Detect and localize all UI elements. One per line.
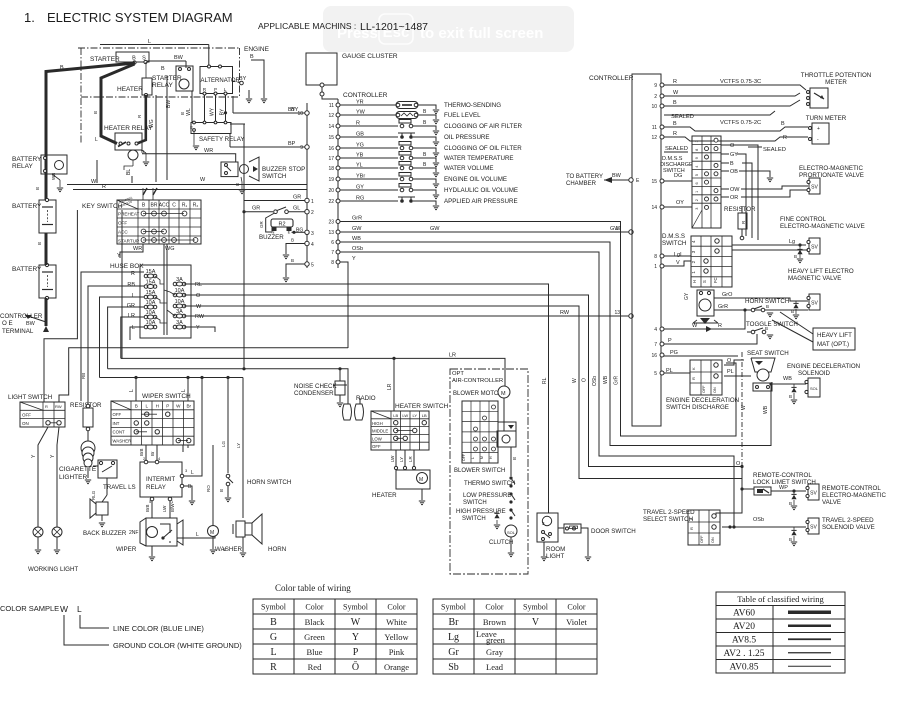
svg-text:GY: GY (730, 152, 738, 158)
svg-text:Blue: Blue (306, 647, 322, 657)
svg-text:OFF: OFF (22, 413, 31, 418)
svg-text:YBr: YBr (356, 174, 365, 180)
svg-text:RL: RL (542, 377, 548, 384)
svg-text:R: R (718, 323, 722, 329)
svg-text:CONTROLLER: CONTROLLER (589, 75, 634, 82)
svg-text:WIPER: WIPER (116, 546, 137, 553)
svg-text:P: P (214, 87, 217, 92)
svg-text:8: 8 (331, 260, 334, 266)
svg-text:B: B (794, 254, 797, 259)
svg-text:1: 1 (695, 191, 699, 193)
svg-text:WASHER: WASHER (215, 546, 242, 553)
svg-text:BATTERY: BATTERY (12, 266, 42, 273)
svg-text:VCTFS 0.75-2C: VCTFS 0.75-2C (720, 120, 761, 126)
svg-text:O: O (727, 358, 732, 364)
svg-text:VCTFS 0.75-3C: VCTFS 0.75-3C (720, 79, 761, 85)
svg-text:Q: Q (141, 149, 145, 154)
svg-text:R: R (691, 377, 696, 380)
svg-text:P: P (668, 338, 672, 344)
svg-text:ROOM: ROOM (546, 546, 565, 553)
svg-text:B: B (37, 242, 42, 245)
svg-text:18: 18 (328, 166, 334, 172)
svg-text:13: 13 (328, 230, 334, 236)
svg-text:R₁: R₁ (182, 203, 188, 209)
svg-text:M: M (501, 391, 506, 397)
svg-text:R: R (689, 527, 694, 530)
svg-text:K: K (691, 367, 696, 370)
svg-text:5: 5 (311, 263, 314, 269)
svg-text:ELECTRIC SYSTEM DIAGRAM: ELECTRIC SYSTEM DIAGRAM (47, 10, 233, 25)
svg-text:SEAT SWITCH: SEAT SWITCH (747, 350, 789, 357)
svg-text:4: 4 (654, 327, 657, 333)
svg-text:L: L (132, 293, 135, 299)
svg-text:TURN METER: TURN METER (806, 115, 847, 122)
svg-text:OFF: OFF (372, 444, 381, 449)
svg-text:YR: YR (356, 100, 364, 106)
svg-text:SEALED: SEALED (665, 146, 688, 152)
svg-text:Green: Green (304, 632, 326, 642)
svg-text:9: 9 (300, 145, 303, 151)
svg-text:R: R (270, 662, 277, 673)
svg-text:B: B (789, 501, 792, 506)
svg-text:WB: WB (783, 376, 792, 382)
svg-text:ON: ON (711, 537, 715, 543)
svg-text:3A: 3A (176, 320, 183, 326)
svg-text:SWITCH DISCHARGE: SWITCH DISCHARGE (666, 404, 729, 411)
svg-text:CONDENSER: CONDENSER (294, 390, 334, 397)
svg-text:BY: BY (291, 107, 299, 113)
svg-text:REMOTE-CONTROL: REMOTE-CONTROL (753, 472, 812, 479)
svg-text:WB: WB (763, 405, 769, 414)
svg-text:Y: Y (352, 256, 356, 262)
svg-text:LR: LR (408, 455, 413, 462)
svg-text:WB: WB (352, 236, 361, 242)
svg-text:Lg: Lg (789, 239, 795, 245)
svg-text:TRAVEL LS: TRAVEL LS (103, 484, 136, 491)
svg-text:ON: ON (22, 421, 29, 426)
svg-text:B: B (766, 304, 769, 309)
svg-text:R: R (45, 404, 48, 409)
svg-text:8: 8 (654, 254, 657, 260)
svg-text:+: + (817, 126, 820, 132)
svg-text:V: V (676, 260, 680, 266)
svg-text:BrB: BrB (139, 448, 144, 456)
svg-text:BR: BR (151, 203, 158, 209)
svg-text:B: B (789, 394, 792, 399)
svg-text:Symbol: Symbol (523, 603, 549, 612)
svg-text:WATER TEMPERATURE: WATER TEMPERATURE (444, 155, 514, 162)
svg-text:17: 17 (328, 156, 334, 162)
svg-text:WASHER: WASHER (113, 439, 132, 444)
svg-text:Color: Color (305, 603, 324, 612)
svg-text:WORKING LIGHT: WORKING LIGHT (28, 566, 78, 573)
svg-text:BrB: BrB (145, 504, 150, 512)
svg-text:GW: GW (610, 226, 620, 232)
svg-text:OW: OW (730, 187, 740, 193)
svg-text:Gray: Gray (486, 647, 504, 657)
svg-text:Red: Red (308, 662, 322, 672)
svg-text:Color: Color (567, 603, 586, 612)
svg-text:BLOWER SWITCH: BLOWER SWITCH (454, 468, 505, 474)
svg-text:HIGH PRESSURE: HIGH PRESSURE (456, 509, 506, 515)
svg-text:B: B (93, 111, 98, 114)
svg-text:OSb: OSb (592, 376, 598, 386)
svg-text:W: W (176, 404, 181, 409)
svg-text:LL-1201~1487: LL-1201~1487 (360, 21, 428, 33)
svg-text:WP: WP (779, 485, 788, 491)
svg-text:FINE CONTROL: FINE CONTROL (780, 216, 827, 223)
svg-text:R2: R2 (278, 222, 285, 228)
svg-text:G: G (270, 632, 277, 643)
svg-text:YG: YG (356, 143, 364, 149)
svg-text:2: 2 (695, 199, 699, 201)
svg-text:APPLIED AIR PRESSURE: APPLIED AIR PRESSURE (444, 198, 518, 205)
svg-text:8: 8 (695, 149, 699, 151)
svg-text:SEALED: SEALED (671, 114, 694, 120)
svg-text:BL: BL (126, 169, 132, 175)
svg-text:10A: 10A (146, 310, 156, 316)
svg-text:WG: WG (165, 246, 174, 252)
svg-text:HORN SWITCH: HORN SWITCH (247, 479, 291, 486)
svg-text:RELAY: RELAY (152, 82, 173, 89)
svg-text:TO BATTERY: TO BATTERY (566, 174, 603, 180)
svg-text:W: W (572, 378, 578, 383)
svg-text:MAT (OPT.): MAT (OPT.) (817, 341, 849, 348)
svg-text:ENGINE DECELERATION: ENGINE DECELERATION (666, 397, 739, 404)
svg-text:B: B (161, 66, 165, 72)
svg-text:W: W (196, 304, 202, 310)
svg-text:Symbol: Symbol (441, 603, 467, 612)
svg-text:R₂: R₂ (193, 203, 199, 209)
svg-text:4: 4 (311, 242, 314, 248)
svg-text:GW: GW (352, 226, 362, 232)
svg-text:OSb: OSb (352, 246, 363, 252)
svg-text:10: 10 (651, 104, 657, 110)
svg-text:Lg: Lg (448, 632, 459, 643)
svg-text:S: S (702, 280, 707, 283)
svg-text:CHAMBER: CHAMBER (566, 181, 597, 187)
svg-text:ELECTRO-MAGNETIC: ELECTRO-MAGNETIC (799, 165, 863, 172)
svg-text:16: 16 (328, 146, 334, 152)
svg-text:HEATER: HEATER (372, 492, 397, 499)
svg-text:OB: OB (730, 169, 738, 175)
svg-text:B/W: B/W (170, 503, 175, 512)
svg-text:10A: 10A (175, 288, 185, 294)
svg-text:GrR: GrR (614, 375, 620, 385)
svg-text:AIR-CONTROLLER: AIR-CONTROLLER (452, 378, 503, 384)
svg-text:SWITCH: SWITCH (462, 516, 486, 522)
svg-text:HUSE BOX: HUSE BOX (110, 263, 144, 270)
svg-text:WG: WG (149, 119, 155, 128)
svg-text:INTERMIT: INTERMIT (146, 476, 175, 483)
svg-text:DG: DG (674, 173, 682, 179)
svg-text:SWITCH: SWITCH (262, 173, 286, 180)
svg-text:B: B (222, 548, 227, 551)
svg-text:LY: LY (399, 457, 404, 462)
svg-text:L: L (196, 532, 199, 538)
svg-text:W: W (60, 604, 68, 614)
svg-text:Sb: Sb (448, 662, 459, 673)
svg-text:20: 20 (328, 188, 334, 194)
svg-text:W: W (91, 179, 97, 185)
svg-text:L: L (270, 647, 276, 658)
svg-text:SOL: SOL (810, 386, 819, 391)
svg-text:Y: Y (352, 632, 359, 643)
svg-text:GR: GR (293, 195, 301, 201)
svg-text:GB: GB (356, 132, 364, 138)
svg-text:14: 14 (651, 205, 657, 211)
svg-text:O: O (196, 293, 201, 299)
svg-text:B: B (219, 489, 224, 492)
svg-text:METER: METER (825, 79, 847, 86)
svg-text:REMOTE-CONTROL: REMOTE-CONTROL (822, 485, 881, 492)
svg-text:22: 22 (328, 199, 334, 205)
svg-text:ELECTRO-MAGNETIC VALVE: ELECTRO-MAGNETIC VALVE (780, 223, 865, 230)
svg-text:B: B (35, 187, 40, 190)
svg-text:7: 7 (331, 250, 334, 256)
svg-text:HEAVY LIFT: HEAVY LIFT (817, 332, 852, 339)
svg-text:10A: 10A (146, 320, 156, 326)
svg-text:LR: LR (128, 313, 135, 319)
svg-text:RELAY: RELAY (12, 163, 33, 170)
svg-text:AV60: AV60 (733, 609, 755, 619)
svg-text:AV20: AV20 (733, 622, 755, 632)
svg-text:Table of classified wiring: Table of classified wiring (737, 594, 824, 604)
svg-text:GrR: GrR (718, 304, 728, 310)
svg-text:W: W (673, 90, 679, 96)
svg-text:R: R (783, 135, 787, 141)
svg-text:PL: PL (727, 369, 734, 375)
svg-text:O: O (736, 461, 741, 467)
svg-text:AV8.5: AV8.5 (732, 636, 757, 646)
svg-text:B: B (730, 161, 734, 167)
svg-text:C: C (172, 203, 176, 209)
svg-text:GR: GR (252, 206, 260, 212)
svg-text:11: 11 (652, 125, 657, 131)
svg-text:LY: LY (412, 413, 417, 418)
svg-text:CLOGGING OF OIL FILTER: CLOGGING OF OIL FILTER (444, 145, 522, 152)
svg-text:L: L (145, 404, 148, 409)
svg-text:BW: BW (26, 321, 36, 327)
svg-text:BW: BW (174, 55, 184, 61)
svg-text:LINE COLOR (BLUE LINE): LINE COLOR (BLUE LINE) (113, 624, 204, 633)
svg-text:OFF: OFF (700, 535, 704, 543)
svg-text:RLG: RLG (91, 490, 96, 500)
svg-text:GAUGE CLUSTER: GAUGE CLUSTER (342, 53, 398, 60)
svg-text:HORN: HORN (268, 546, 286, 553)
svg-text:SAFETY RELAY: SAFETY RELAY (199, 136, 245, 143)
svg-text:Orange: Orange (384, 662, 409, 672)
svg-text:SOL: SOL (507, 530, 516, 535)
svg-text:W: W (200, 177, 206, 183)
svg-text:ACC: ACC (159, 203, 170, 209)
svg-text:3A: 3A (176, 277, 183, 283)
svg-text:WY: WY (210, 107, 216, 116)
svg-text:23: 23 (328, 220, 334, 226)
svg-text:LW: LW (162, 505, 167, 512)
svg-text:HEATER SWITCH: HEATER SWITCH (395, 403, 449, 410)
svg-text:E: E (190, 125, 193, 130)
svg-text:L: L (191, 470, 194, 476)
svg-text:BY: BY (239, 76, 247, 82)
svg-text:M: M (419, 477, 423, 483)
svg-text:COLOR SAMPLE: COLOR SAMPLE (0, 604, 59, 613)
svg-text:R: R (102, 184, 106, 190)
svg-text:Y: Y (196, 325, 200, 331)
svg-text:ACC: ACC (118, 229, 128, 234)
svg-text:TRAVEL 2-SPEED: TRAVEL 2-SPEED (643, 509, 695, 516)
svg-text:LIGHT SWITCH: LIGHT SWITCH (8, 394, 52, 401)
svg-text:SV: SV (811, 185, 818, 191)
svg-text:TERMINAL: TERMINAL (2, 328, 34, 335)
svg-text:P: P (166, 404, 169, 409)
svg-text:L: L (181, 389, 187, 392)
svg-text:LG: LG (221, 440, 226, 447)
svg-text:Color table of wiring: Color table of wiring (275, 583, 351, 593)
svg-text:9: 9 (695, 157, 699, 159)
svg-text:THROTTLE POTENTION: THROTTLE POTENTION (801, 72, 871, 79)
svg-text:LB: LB (393, 413, 398, 418)
svg-text:WIPER SWITCH: WIPER SWITCH (142, 393, 191, 400)
svg-text:W: W (692, 323, 698, 329)
svg-text:Y: Y (117, 253, 121, 259)
svg-text:LIGHT: LIGHT (546, 553, 564, 560)
svg-text:GR: GR (259, 220, 264, 228)
svg-text:CLOGGING OF AIR FILTER: CLOGGING OF AIR FILTER (444, 123, 522, 130)
svg-text:B: B (291, 258, 294, 263)
svg-text:6: 6 (695, 182, 699, 184)
svg-text:MAGNETIC VALVE: MAGNETIC VALVE (788, 275, 841, 282)
svg-text:BACK BUZZER: BACK BUZZER (83, 530, 127, 537)
svg-text:DOOR SWITCH: DOOR SWITCH (591, 528, 636, 535)
svg-text:LgL: LgL (674, 252, 683, 258)
svg-text:SV: SV (811, 245, 818, 251)
svg-text:D.M.S.S: D.M.S.S (662, 233, 685, 240)
svg-text:RW: RW (560, 310, 570, 316)
svg-text:FC: FC (713, 277, 718, 283)
svg-text:CLUTCH: CLUTCH (489, 540, 513, 546)
svg-text:SOLENOID: SOLENOID (798, 370, 831, 377)
svg-text:Color: Color (387, 603, 406, 612)
svg-text:B: B (60, 65, 64, 71)
svg-text:RB: RB (127, 282, 135, 288)
svg-text:BW: BW (612, 173, 622, 179)
svg-text:B: B (765, 326, 768, 331)
svg-text:HIGH: HIGH (372, 421, 383, 426)
svg-text:BP: BP (288, 141, 296, 147)
svg-text:L: L (132, 325, 135, 331)
svg-text:ELECTRO-MAGNETIC: ELECTRO-MAGNETIC (822, 492, 886, 499)
svg-text:B: B (673, 100, 677, 106)
svg-text:YL: YL (356, 163, 363, 169)
svg-text:Violet: Violet (566, 617, 587, 627)
svg-text:ENGINE OIL VOLUME: ENGINE OIL VOLUME (444, 176, 507, 183)
svg-text:O: O (582, 378, 588, 382)
svg-text:B: B (250, 54, 254, 60)
svg-text:L: L (471, 457, 475, 459)
svg-text:RO: RO (206, 485, 211, 492)
svg-text:19: 19 (328, 177, 334, 183)
svg-text:STARTUP: STARTUP (118, 238, 139, 243)
svg-text:15A: 15A (146, 280, 156, 286)
svg-text:RB: RB (81, 373, 86, 379)
svg-text:WATER VOLUME: WATER VOLUME (444, 165, 494, 172)
svg-text:L: L (95, 137, 98, 143)
svg-text:SV: SV (810, 491, 817, 497)
svg-text:5: 5 (695, 174, 699, 176)
svg-text:VALVE: VALVE (822, 499, 841, 506)
svg-text:L: L (77, 604, 82, 614)
svg-text:H: H (692, 280, 697, 283)
svg-text:B: B (789, 537, 792, 542)
svg-text:Gr: Gr (448, 647, 459, 658)
svg-text:B: B (781, 121, 785, 127)
svg-text:OPT: OPT (452, 371, 464, 377)
svg-text:OY: OY (676, 200, 684, 206)
svg-text:Symbol: Symbol (261, 603, 287, 612)
svg-text:3A: 3A (176, 309, 183, 315)
svg-text:M: M (210, 530, 214, 536)
svg-text:to exit full screen: to exit full screen (420, 25, 543, 42)
svg-text:GL: GL (293, 206, 300, 212)
svg-text:E: E (288, 230, 291, 235)
svg-text:GrO: GrO (722, 292, 733, 298)
svg-text:BLOWER MOTOR: BLOWER MOTOR (453, 391, 504, 397)
svg-text:15A: 15A (146, 269, 156, 275)
svg-text:H: H (156, 404, 159, 409)
svg-text:Br: Br (150, 451, 155, 456)
svg-text:OFF: OFF (462, 454, 466, 461)
svg-text:P: P (353, 647, 359, 658)
svg-text:WR: WR (204, 148, 213, 154)
svg-text:AV0.85: AV0.85 (729, 663, 758, 673)
svg-text:OR: OR (730, 195, 738, 201)
svg-text:green: green (486, 635, 506, 645)
svg-text:Br: Br (186, 404, 191, 409)
svg-text:2: 2 (311, 210, 314, 216)
svg-text:O: O (730, 143, 735, 149)
svg-text:GY: GY (684, 292, 690, 300)
svg-text:B: B (180, 112, 185, 115)
svg-text:PREHEAT: PREHEAT (118, 211, 140, 216)
svg-text:2NF: 2NF (129, 530, 138, 536)
svg-text:HEATER RELAY: HEATER RELAY (104, 125, 153, 132)
svg-text:SV: SV (810, 525, 817, 531)
svg-text:LW: LW (402, 413, 408, 418)
svg-text:B: B (673, 121, 677, 127)
svg-text:15: 15 (651, 179, 657, 185)
svg-text:AV2 . 1.25: AV2 . 1.25 (724, 649, 765, 659)
svg-text:INT: INT (113, 421, 120, 426)
svg-text:15: 15 (328, 135, 334, 141)
svg-text:NOISE CHECK: NOISE CHECK (294, 383, 338, 390)
svg-text:R: R (673, 131, 677, 137)
svg-text:B: B (791, 309, 794, 314)
svg-text:B: B (512, 457, 517, 460)
svg-text:SWITCH: SWITCH (463, 500, 487, 506)
svg-text:Color: Color (485, 603, 504, 612)
svg-text:10A: 10A (146, 300, 156, 306)
svg-text:ENGINE DECELERATION: ENGINE DECELERATION (787, 363, 860, 370)
svg-text:B: B (291, 238, 294, 243)
svg-text:V: V (532, 617, 540, 628)
svg-text:Lead: Lead (486, 662, 504, 672)
svg-text:HYDLAULIC OIL VOLUME: HYDLAULIC OIL VOLUME (444, 187, 518, 194)
svg-text:PG: PG (670, 350, 678, 356)
svg-text:HEAVY LIFT ELECTRO: HEAVY LIFT ELECTRO (788, 268, 854, 275)
svg-text:GR: GR (127, 303, 135, 309)
svg-text:15A: 15A (146, 290, 156, 296)
